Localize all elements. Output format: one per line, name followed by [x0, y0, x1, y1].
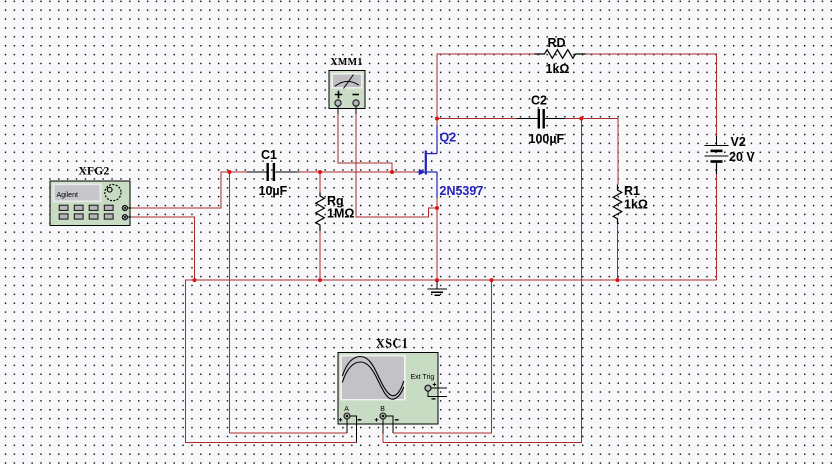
node dot drain/C2 — [435, 117, 439, 121]
wire R1 bottom to rail — [617, 224, 619, 280]
resistor Rg — [316, 193, 325, 232]
oscilloscope XSC1 — [338, 353, 447, 443]
transistor Q2 2N5397 JFET — [417, 125, 437, 198]
node dot Rg top — [318, 170, 322, 174]
svg-text:XFG2: XFG2 — [78, 166, 109, 178]
svg-text:Ext Trig: Ext Trig — [411, 374, 435, 381]
wire RD right to V2 top — [586, 54, 717, 136]
wire scope B+ stub red part — [382, 433, 384, 442]
svg-text:2N5397: 2N5397 — [440, 184, 484, 198]
svg-text:Q2: Q2 — [440, 131, 457, 145]
multimeter XMM1 — [329, 71, 365, 115]
svg-text:B: B — [380, 406, 385, 413]
resistor R1 — [613, 185, 622, 225]
wire Rg top — [319, 172, 321, 193]
capacitor C2 — [517, 109, 565, 129]
wire drain node to C2 left — [437, 118, 517, 120]
svg-text:10µF: 10µF — [259, 184, 288, 198]
svg-text:20 V: 20 V — [729, 150, 755, 164]
wire XMM1 plus probe — [338, 114, 392, 172]
svg-text:V2: V2 — [731, 135, 746, 149]
node dot Rg bottom — [318, 278, 322, 282]
svg-text:1kΩ: 1kΩ — [546, 62, 570, 76]
resistor RD — [535, 50, 586, 59]
wire V2 bottom to rail — [716, 174, 718, 280]
capacitor C1 — [247, 163, 299, 181]
node dot rail left — [193, 278, 197, 282]
wire ground rail — [195, 279, 717, 281]
svg-text:C2: C2 — [531, 94, 547, 108]
wire output node down to scope B+ — [383, 119, 581, 443]
wire C1 right to gate node — [299, 171, 418, 173]
svg-text:100µF: 100µF — [529, 132, 565, 146]
ground — [428, 281, 447, 295]
node dot A+ tap — [228, 170, 232, 174]
svg-text:1kΩ: 1kΩ — [624, 198, 648, 212]
svg-text:R1: R1 — [624, 184, 640, 198]
node dot ground junction — [435, 278, 439, 282]
svg-text:A: A — [344, 406, 349, 413]
wire node A tap to scope A+ — [230, 172, 348, 433]
svg-text:C1: C1 — [261, 148, 277, 162]
svg-text:XMM1: XMM1 — [330, 57, 362, 68]
node dot source junction — [435, 206, 439, 210]
wire drain up to RD left — [437, 54, 535, 125]
wire XFG2 out+ to C1 left — [131, 172, 247, 208]
wire signal ground jog to scope A- — [185, 280, 356, 442]
node dot R1 bottom — [616, 278, 620, 282]
node dot gate/XMM1+ — [390, 170, 394, 174]
function generator XFG2 — [50, 181, 131, 226]
wire scope B- to ground rail — [393, 280, 492, 433]
wire source down to rail — [436, 198, 438, 280]
svg-text:1MΩ: 1MΩ — [327, 207, 354, 221]
wire C2 right to R1 top — [565, 119, 618, 185]
svg-text:Agilent: Agilent — [57, 192, 78, 199]
ext trig terminal — [425, 385, 431, 391]
wire Rg bottom to rail — [319, 231, 321, 280]
battery V2 — [705, 136, 729, 174]
node dot output/B+ — [579, 117, 583, 121]
wire XMM1 minus probe to source jog — [356, 114, 437, 217]
wire XFG2 out- down — [131, 217, 195, 280]
svg-text:RD: RD — [548, 36, 566, 50]
node dot B- rail — [490, 278, 494, 282]
svg-text:XSC1: XSC1 — [376, 336, 408, 350]
